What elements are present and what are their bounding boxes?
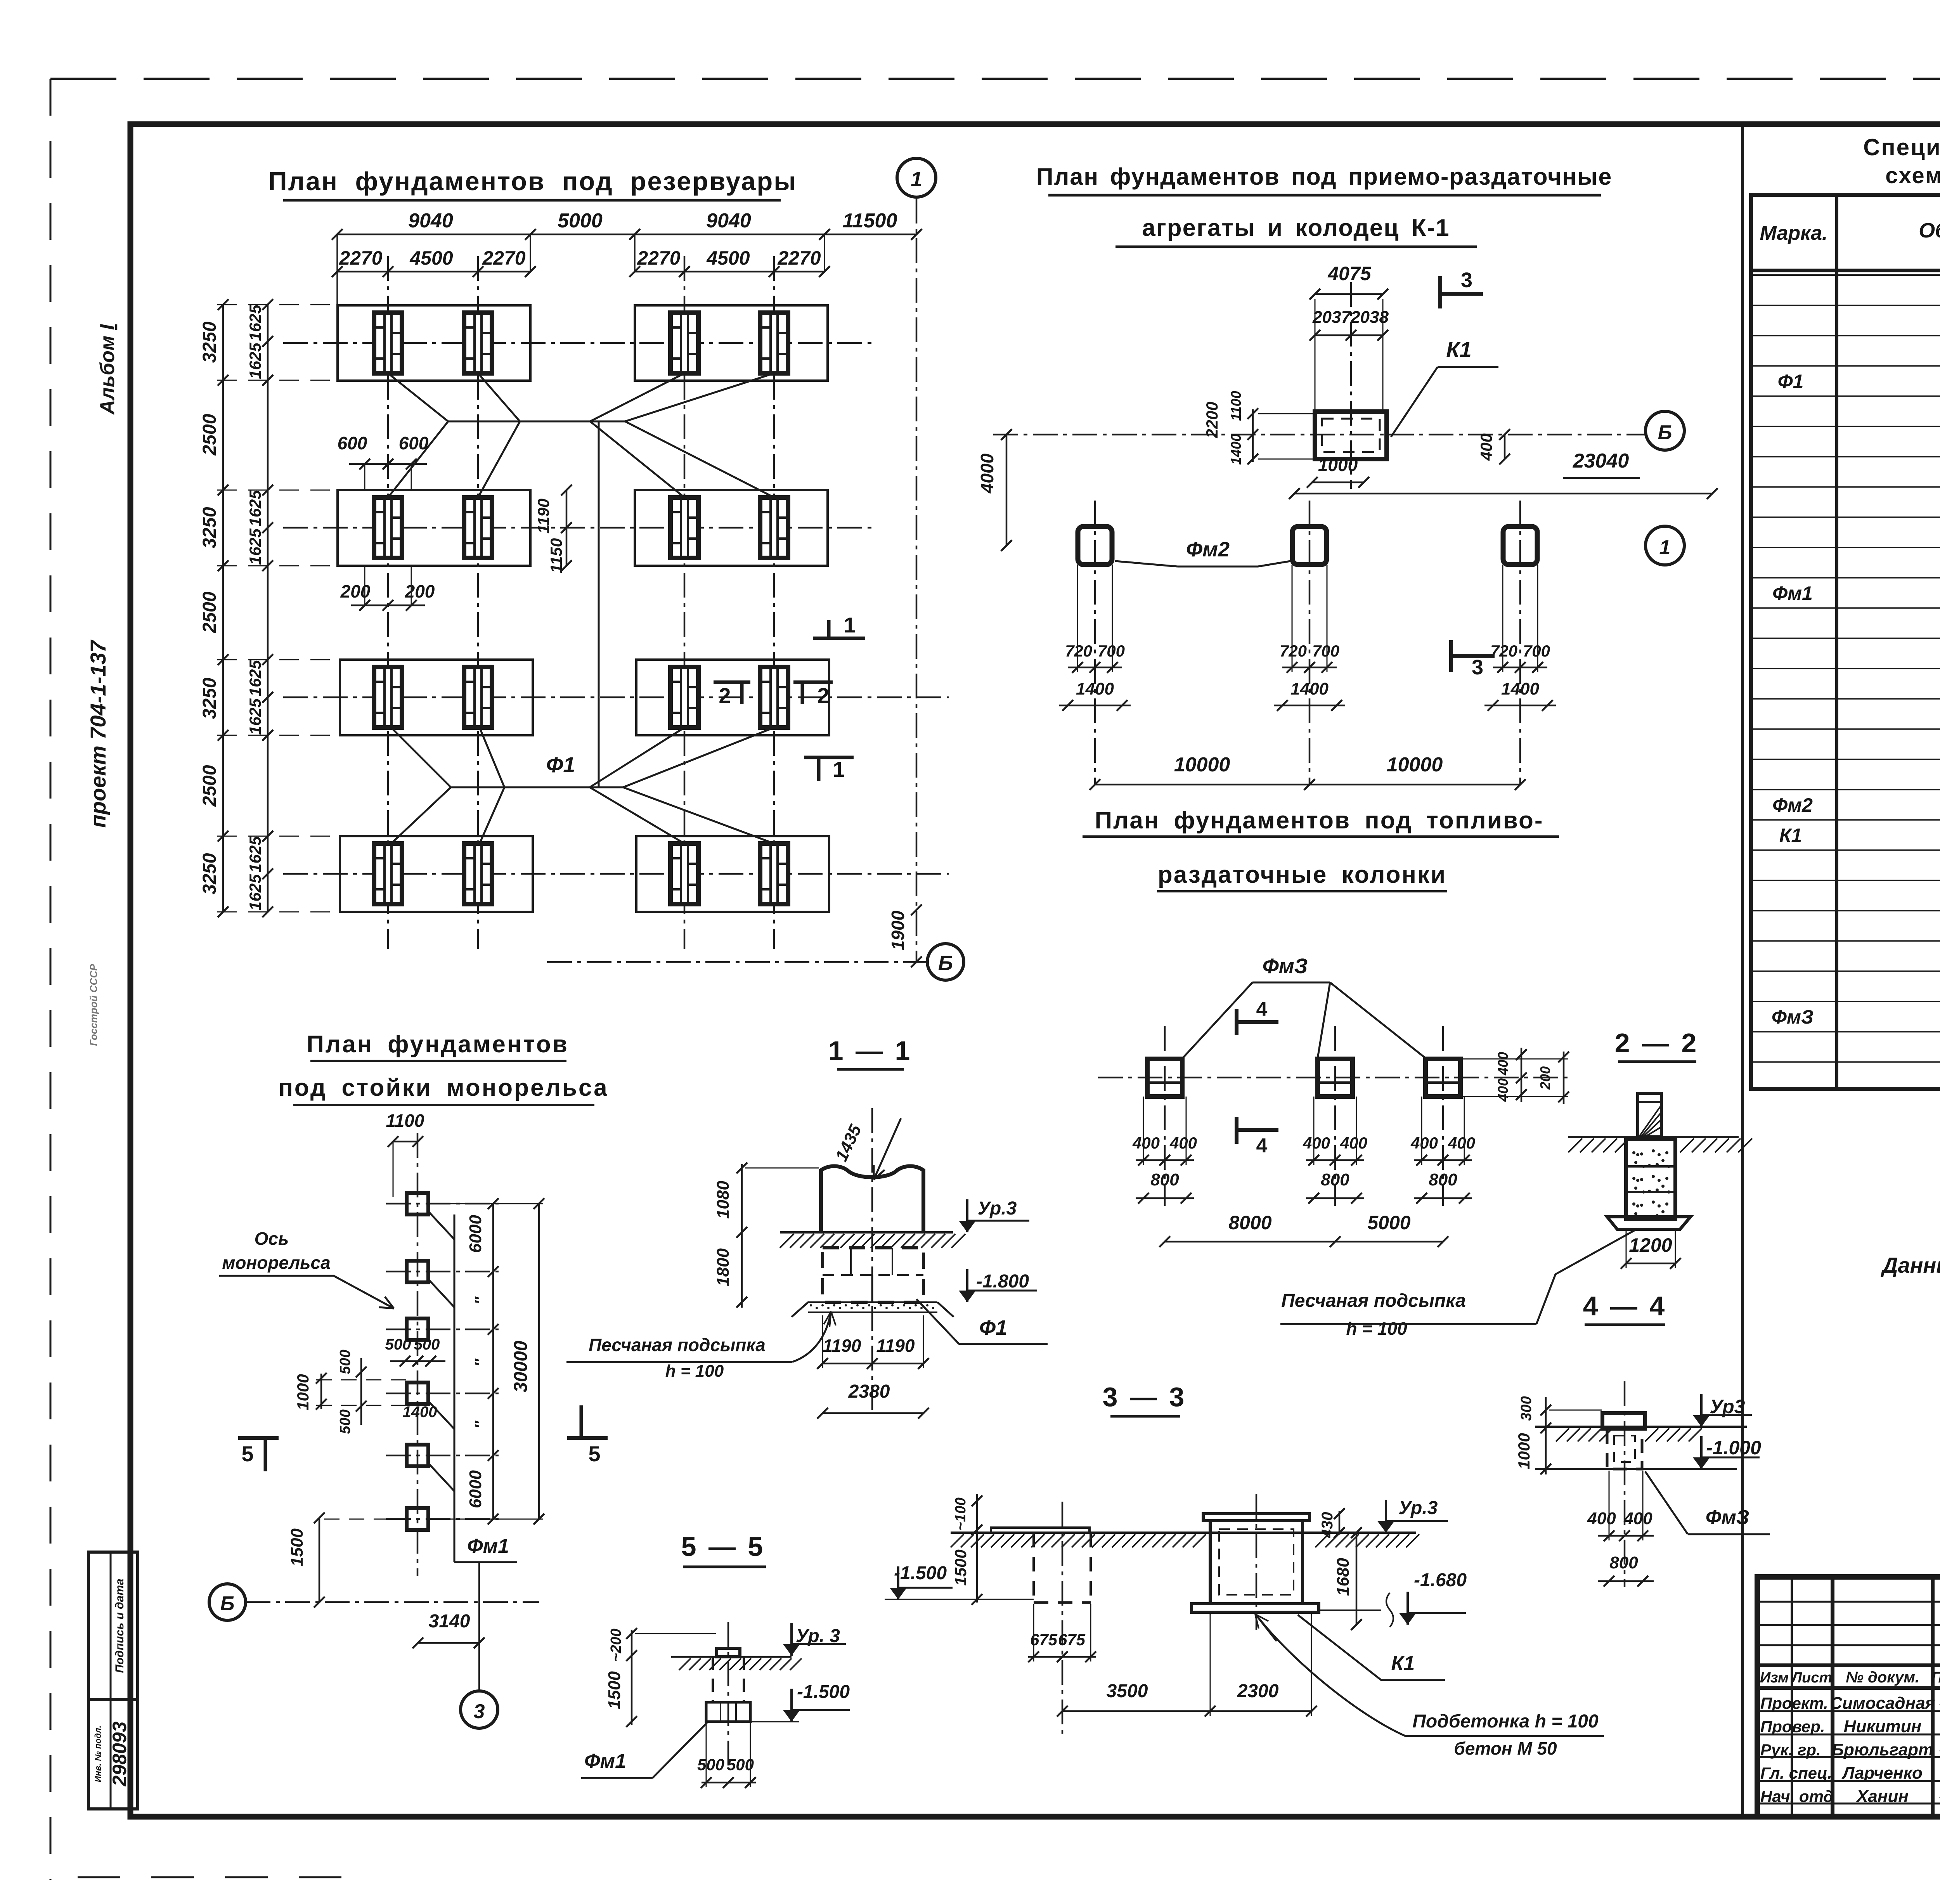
- svg-text:1400: 1400: [403, 1403, 437, 1421]
- svg-text:1: 1: [1659, 536, 1671, 559]
- svg-text:План фундаментов: План фундаментов: [307, 1031, 569, 1058]
- svg-text:5000: 5000: [1367, 1212, 1410, 1234]
- svg-text:ФмЗ: ФмЗ: [1772, 1006, 1814, 1028]
- svg-text:400: 400: [1448, 1134, 1475, 1152]
- svg-text:400: 400: [1303, 1134, 1330, 1152]
- svg-text:Подбетонка h = 100: Подбетонка h = 100: [1412, 1711, 1599, 1732]
- svg-text:1100: 1100: [386, 1111, 424, 1131]
- svg-text:-1.680: -1.680: [1414, 1570, 1467, 1590]
- svg-text:1500: 1500: [605, 1671, 624, 1709]
- svg-text:4500: 4500: [706, 247, 750, 269]
- svg-text:№ докум.: № докум.: [1846, 1669, 1919, 1686]
- svg-text:9040: 9040: [408, 210, 453, 232]
- svg-text:3250: 3250: [199, 507, 220, 548]
- svg-text:1: 1: [911, 168, 922, 191]
- svg-text:План фундаментов под приемо: План фундаментов под приемо-раздаточные: [1036, 163, 1613, 190]
- svg-text:400: 400: [1340, 1134, 1367, 1152]
- svg-text:Альбом I: Альбом I: [96, 324, 119, 415]
- svg-text:2270: 2270: [339, 247, 382, 269]
- svg-text:2270: 2270: [637, 247, 680, 269]
- svg-text:500: 500: [337, 1350, 353, 1374]
- svg-text:Гл. спец.: Гл. спец.: [1760, 1764, 1832, 1782]
- svg-text:4: 4: [1256, 998, 1268, 1020]
- svg-text:5 — 5: 5 — 5: [681, 1532, 766, 1562]
- svg-text:1: 1: [833, 757, 845, 781]
- svg-text:2 — 2: 2 — 2: [1615, 1028, 1699, 1058]
- svg-text:1150: 1150: [547, 538, 565, 573]
- svg-text:-1.500: -1.500: [797, 1682, 850, 1702]
- svg-text:1625: 1625: [246, 836, 264, 873]
- svg-text:500: 500: [697, 1755, 724, 1774]
- svg-text:3: 3: [474, 1700, 485, 1723]
- svg-text:23040: 23040: [1573, 450, 1629, 472]
- svg-text:400: 400: [1169, 1134, 1197, 1152]
- svg-text:1625: 1625: [246, 874, 264, 911]
- svg-text:К1: К1: [1446, 337, 1472, 362]
- svg-text:Ларченко: Ларченко: [1841, 1764, 1923, 1783]
- svg-text:720: 720: [1065, 642, 1092, 660]
- svg-text:800: 800: [1150, 1170, 1179, 1189]
- svg-text:4500: 4500: [409, 247, 453, 269]
- svg-text:2: 2: [817, 683, 829, 708]
- svg-text:1500: 1500: [951, 1549, 970, 1585]
- svg-text:Песчаная подсыпка: Песчаная подсыпка: [589, 1335, 766, 1355]
- svg-text:Ось: Ось: [255, 1228, 289, 1249]
- svg-text:1400: 1400: [1228, 434, 1244, 465]
- svg-text:схемам расположенным на д: схемам расположенным на данном листе: [1885, 163, 1940, 188]
- svg-text:1500: 1500: [288, 1528, 307, 1566]
- svg-text:1000: 1000: [294, 1374, 312, 1410]
- svg-text:Б: Б: [938, 951, 953, 975]
- svg-text:Инв. № подл.: Инв. № подл.: [93, 1726, 103, 1782]
- svg-text:1000: 1000: [1515, 1433, 1533, 1469]
- svg-text:8000: 8000: [1228, 1212, 1271, 1234]
- svg-text:Симосадная: Симосадная: [1830, 1694, 1935, 1713]
- svg-text:6000: 6000: [466, 1470, 485, 1508]
- svg-text:1625: 1625: [246, 660, 264, 696]
- svg-text:1625: 1625: [246, 698, 264, 735]
- svg-text:4 — 4: 4 — 4: [1583, 1291, 1667, 1321]
- svg-text:2300: 2300: [1237, 1681, 1279, 1701]
- svg-text:2270: 2270: [482, 247, 525, 269]
- svg-text:проект 704-1-137: проект 704-1-137: [86, 639, 110, 828]
- svg-text:Ур.3: Ур.3: [1399, 1498, 1438, 1518]
- svg-text:-1.800: -1.800: [976, 1271, 1029, 1292]
- svg-text:200: 200: [1537, 1066, 1553, 1090]
- svg-text:2037: 2037: [1312, 308, 1351, 327]
- svg-text:План фундаментов под то: План фундаментов под топливо-: [1095, 807, 1543, 834]
- svg-text:4: 4: [1256, 1135, 1268, 1157]
- svg-text:3500: 3500: [1107, 1681, 1148, 1701]
- svg-text:3250: 3250: [199, 853, 220, 894]
- svg-text:″: ″: [472, 1358, 489, 1367]
- svg-text:675: 675: [1030, 1630, 1058, 1649]
- svg-text:Б: Б: [1658, 421, 1672, 444]
- svg-text:720: 720: [1280, 642, 1307, 660]
- svg-text:-1.500: -1.500: [894, 1563, 947, 1583]
- svg-text:План фундаментов под ре: План фундаментов под резервуары: [268, 167, 797, 196]
- svg-text:~100: ~100: [953, 1497, 969, 1531]
- svg-text:Лист: Лист: [1791, 1670, 1832, 1686]
- svg-text:бетон М 50: бетон М 50: [1454, 1738, 1557, 1758]
- svg-text:400: 400: [1495, 1078, 1511, 1102]
- svg-text:1625: 1625: [246, 528, 264, 565]
- svg-text:1900: 1900: [888, 910, 908, 950]
- svg-text:Спецификация элементов к ма: Спецификация элементов к маркировочным: [1863, 134, 1940, 160]
- svg-text:Изм: Изм: [1760, 1670, 1789, 1686]
- svg-text:430: 430: [1319, 1512, 1336, 1538]
- svg-text:″: ″: [472, 1421, 489, 1429]
- svg-text:Фм1: Фм1: [467, 1535, 509, 1558]
- svg-text:800: 800: [1429, 1170, 1457, 1189]
- svg-text:2380: 2380: [848, 1381, 890, 1402]
- svg-text:Фм1: Фм1: [1772, 582, 1813, 604]
- svg-text:1680: 1680: [1334, 1558, 1353, 1596]
- svg-text:ФмЗ: ФмЗ: [1706, 1506, 1749, 1529]
- svg-text:10000: 10000: [1387, 754, 1443, 776]
- svg-text:под стойки монорельса: под стойки монорельса: [278, 1074, 608, 1101]
- svg-text:Данный лист смотри с л: Данный лист смотри с листом кс-3.: [1881, 1253, 1940, 1277]
- svg-text:800: 800: [1609, 1553, 1638, 1572]
- svg-text:5000: 5000: [558, 210, 603, 232]
- svg-text:400: 400: [1495, 1052, 1511, 1076]
- svg-text:1625: 1625: [246, 343, 264, 379]
- svg-text:10000: 10000: [1174, 754, 1230, 776]
- svg-text:Проект.: Проект.: [1760, 1694, 1828, 1712]
- svg-text:Фм1: Фм1: [584, 1750, 626, 1772]
- svg-text:Фм2: Фм2: [1186, 538, 1230, 561]
- svg-text:200: 200: [340, 581, 371, 601]
- svg-text:К1: К1: [1779, 825, 1802, 846]
- svg-text:500: 500: [337, 1409, 353, 1434]
- svg-text:~200: ~200: [608, 1629, 624, 1662]
- svg-text:Ханин: Ханин: [1855, 1787, 1909, 1806]
- svg-text:675: 675: [1058, 1630, 1086, 1649]
- svg-text:Песчаная подсыпка: Песчаная подсыпка: [1281, 1291, 1466, 1311]
- svg-text:1190: 1190: [534, 499, 553, 534]
- svg-text:1190: 1190: [823, 1336, 861, 1356]
- svg-text:300: 300: [1518, 1396, 1535, 1421]
- svg-text:1200: 1200: [1629, 1234, 1672, 1256]
- svg-text:1400: 1400: [1290, 679, 1329, 698]
- svg-text:1400: 1400: [1501, 679, 1539, 698]
- svg-text:1400: 1400: [1076, 679, 1114, 698]
- svg-text:3: 3: [1472, 656, 1483, 679]
- svg-text:30000: 30000: [511, 1341, 531, 1393]
- svg-text:-1.000: -1.000: [1706, 1437, 1761, 1459]
- svg-text:400: 400: [1132, 1134, 1160, 1152]
- svg-text:2500: 2500: [199, 414, 220, 456]
- svg-text:4000: 4000: [977, 453, 997, 494]
- svg-text:2: 2: [719, 683, 731, 708]
- svg-text:1100: 1100: [1228, 391, 1244, 421]
- svg-text:К1: К1: [1391, 1652, 1415, 1675]
- svg-text:298093: 298093: [109, 1721, 130, 1786]
- svg-text:Госстрой СССР: Госстрой СССР: [88, 964, 99, 1046]
- svg-text:3 — 3: 3 — 3: [1103, 1382, 1187, 1412]
- svg-text:ФмЗ: ФмЗ: [1263, 955, 1308, 978]
- svg-text:2038: 2038: [1350, 308, 1389, 327]
- svg-text:Ф1: Ф1: [1778, 371, 1804, 392]
- svg-text:1: 1: [844, 613, 856, 637]
- svg-text:1625: 1625: [246, 305, 264, 341]
- svg-text:h = 100: h = 100: [665, 1362, 724, 1381]
- svg-text:″: ″: [472, 1296, 489, 1305]
- svg-text:700: 700: [1523, 642, 1550, 660]
- svg-text:3250: 3250: [199, 677, 220, 719]
- svg-text:11500: 11500: [843, 210, 897, 232]
- svg-text:Ф1: Ф1: [546, 752, 575, 777]
- svg-text:h = 100: h = 100: [1346, 1318, 1407, 1339]
- svg-text:1080: 1080: [714, 1181, 733, 1219]
- svg-text:1190: 1190: [876, 1336, 915, 1356]
- svg-text:400: 400: [1587, 1509, 1616, 1528]
- svg-text:600: 600: [338, 433, 367, 453]
- svg-text:2200: 2200: [1203, 402, 1221, 438]
- svg-text:Марка.: Марка.: [1760, 222, 1828, 244]
- svg-text:400: 400: [1477, 433, 1495, 461]
- svg-text:5: 5: [241, 1441, 253, 1466]
- svg-text:400: 400: [1623, 1509, 1652, 1528]
- svg-text:Брюльгарт: Брюльгарт: [1832, 1740, 1933, 1759]
- svg-text:Ф1: Ф1: [979, 1316, 1007, 1339]
- svg-text:6000: 6000: [466, 1215, 485, 1253]
- svg-text:1800: 1800: [714, 1248, 733, 1286]
- svg-text:1 — 1: 1 — 1: [828, 1036, 913, 1066]
- svg-text:1000: 1000: [1318, 455, 1358, 475]
- svg-text:3: 3: [1461, 269, 1472, 292]
- svg-text:4075: 4075: [1327, 263, 1371, 284]
- svg-text:1625: 1625: [246, 490, 264, 527]
- svg-text:раздаточные колонки: раздаточные колонки: [1158, 861, 1446, 888]
- svg-text:Подпись: Подпись: [1931, 1669, 1940, 1686]
- svg-text:3250: 3250: [199, 321, 220, 363]
- svg-text:700: 700: [1098, 642, 1125, 660]
- svg-text:2500: 2500: [199, 765, 220, 807]
- svg-text:2500: 2500: [199, 591, 220, 633]
- svg-text:500: 500: [385, 1336, 411, 1353]
- svg-text:500: 500: [414, 1336, 440, 1353]
- svg-text:Никитин: Никитин: [1844, 1717, 1921, 1736]
- svg-text:3140: 3140: [429, 1611, 470, 1632]
- svg-text:Фм2: Фм2: [1772, 794, 1813, 816]
- svg-text:2270: 2270: [777, 247, 821, 269]
- svg-text:Б: Б: [220, 1592, 235, 1615]
- svg-text:Подпись и дата: Подпись и дата: [113, 1578, 126, 1673]
- svg-text:5: 5: [588, 1441, 600, 1466]
- svg-text:монорельса: монорельса: [222, 1253, 330, 1273]
- svg-text:9040: 9040: [706, 210, 751, 232]
- svg-text:Обозначение: Обозначение: [1919, 219, 1940, 242]
- svg-text:Провер.: Провер.: [1760, 1717, 1825, 1736]
- svg-text:Рук. гр.: Рук. гр.: [1760, 1741, 1821, 1759]
- svg-text:Ур.3: Ур.3: [978, 1198, 1017, 1219]
- svg-text:700: 700: [1312, 642, 1339, 660]
- svg-text:400: 400: [1410, 1134, 1438, 1152]
- svg-text:Нач. отд: Нач. отд: [1760, 1787, 1833, 1805]
- svg-text:800: 800: [1321, 1170, 1349, 1189]
- svg-text:200: 200: [405, 581, 435, 601]
- svg-text:агрегаты и колодец К-: агрегаты и колодец К-1: [1142, 215, 1450, 241]
